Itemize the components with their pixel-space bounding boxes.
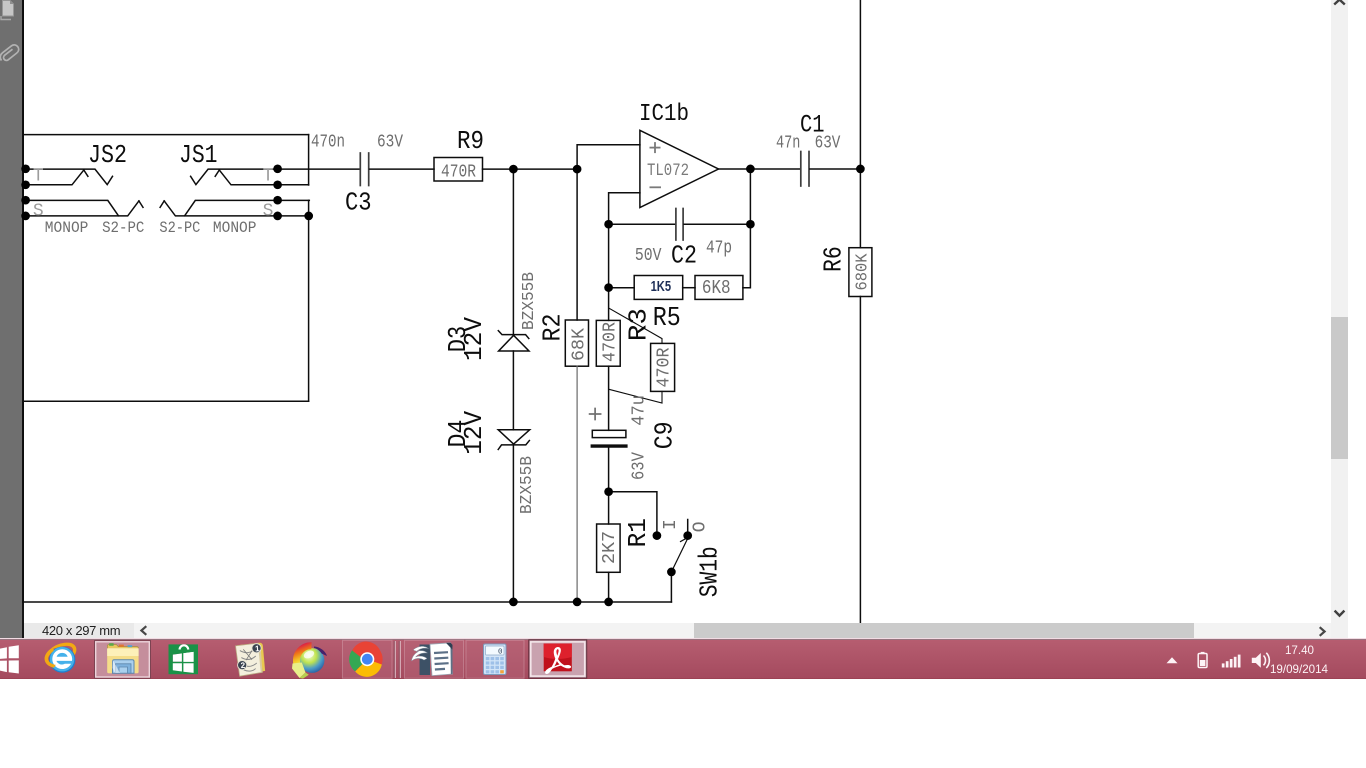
wire: R1 to rail (608, 572, 610, 602)
resistor R3 body (596, 320, 620, 366)
jack JS2 tip contact (24, 169, 113, 185)
wire: node to node B (513, 168, 577, 170)
wire: C9 to R1 node (608, 448, 610, 492)
tray expand triangle (1167, 657, 1178, 663)
switch pole dot (667, 568, 676, 577)
junction dots ground rail (509, 598, 613, 607)
svg-text:470R: 470R (441, 162, 476, 182)
label R5 (653, 304, 681, 334)
label JS1 (179, 140, 218, 170)
start button windows flag (0, 645, 19, 673)
wire: connector box bottom edge (23, 400, 308, 402)
wire: R2 vertical upper (576, 169, 578, 320)
colorful swirl app icon (292, 646, 327, 679)
label R6 rotated (818, 246, 848, 272)
label D4 rotated (443, 420, 473, 448)
value 50V of C2 (635, 246, 662, 266)
svg-text:T: T (263, 166, 274, 186)
label C3 (345, 188, 372, 218)
taskbar clock (1210, 644, 1314, 656)
label IC1b (639, 101, 689, 128)
label SW1b rotated (694, 546, 724, 597)
svg-text:JS2: JS2 (88, 140, 127, 170)
jack JS1 tip blade (215, 170, 279, 185)
wire: D3 anode from R9 node (512, 169, 514, 335)
value TL072 (647, 161, 689, 181)
wire: left frame edge (22, 0, 24, 602)
wire: R5 diagonal lower (609, 389, 662, 403)
value 470R of R5 rotated (654, 347, 674, 387)
value 470R of R9 (441, 162, 476, 182)
wire: R6 net vertical (859, 0, 861, 622)
wire: bottom ground rail (23, 601, 671, 603)
junction node at R9/D3 (509, 165, 518, 174)
svg-text:63V: 63V (377, 133, 403, 153)
wire: JS1 pin4 to box edge (278, 215, 309, 217)
junction node C2/feedback (746, 220, 755, 229)
svg-text:47u: 47u (630, 395, 650, 426)
toolbar grip separators (394, 641, 400, 678)
op-amp IC1b triangle (640, 130, 719, 207)
svg-text:2K7: 2K7 (600, 531, 620, 564)
wire: R2 vertical lower (576, 366, 578, 602)
wire: output to C1 (750, 168, 800, 170)
wire: JS1 pin2 to box edge (278, 184, 309, 186)
value BZX55B of D3 rotated (520, 272, 539, 330)
svg-text:I: I (661, 519, 681, 530)
wire: JS1 sleeve to box edge (278, 199, 310, 201)
horizontal scrollbar thumb (694, 623, 1194, 638)
tray signal bars icon (1222, 655, 1241, 668)
vertical scrollbar (1331, 0, 1348, 638)
svg-text:BZX55B: BZX55B (518, 456, 537, 514)
svg-text:68K: 68K (569, 328, 589, 361)
value 1K5 (651, 278, 672, 295)
op-amp plus sign (650, 142, 661, 153)
junction dots JS1 pins (273, 164, 313, 220)
resistor 6K8 body (695, 276, 743, 300)
svg-text:470R: 470R (654, 347, 674, 387)
svg-text:S: S (33, 202, 44, 222)
svg-text:R3: R3 (623, 308, 653, 341)
svg-text:680K: 680K (853, 253, 872, 290)
svg-text:0: 0 (498, 649, 503, 657)
value 6K8 (702, 277, 731, 299)
svg-text:T: T (33, 166, 44, 186)
jack JS1 tip contact (191, 169, 279, 185)
label R1 rotated (623, 518, 653, 547)
value 12V of D3 rotated (459, 317, 489, 361)
junction node at +input/R2 (573, 165, 582, 174)
junction node C9/R1/switch (604, 487, 613, 496)
value 2K7 rotated (600, 531, 620, 564)
svg-text:R1: R1 (623, 518, 653, 547)
svg-text:MONOP: MONOP (213, 219, 257, 237)
label R3 rotated (623, 308, 653, 341)
wire: connector box top edge (23, 134, 308, 136)
wire: JS1 tip to C3 (278, 168, 360, 170)
wire: connector box right edge lower (308, 200, 310, 401)
svg-text:O: O (690, 521, 710, 532)
switch label I rotated (661, 519, 681, 530)
svg-text:R6: R6 (818, 246, 848, 272)
pin label T left (33, 166, 44, 186)
jack JS2 sleeve contact (24, 200, 118, 215)
svg-text:C2: C2 (671, 240, 697, 270)
calculator button frame (466, 640, 524, 678)
adobe reader active button (528, 639, 587, 678)
svg-text:470n: 470n (311, 133, 345, 153)
wire: node to switch I contact (609, 492, 657, 536)
wire: switch pole to rail (670, 572, 672, 602)
svg-text:C3: C3 (345, 188, 372, 218)
switch SW1b O contact stub (687, 520, 689, 536)
openoffice button frame (405, 640, 464, 678)
windows store icon (169, 644, 199, 674)
label C9 rotated (649, 421, 679, 449)
tray battery icon (1198, 652, 1207, 668)
wire: C1 to R6 node (810, 168, 861, 170)
svg-text:47n: 47n (776, 133, 800, 153)
wire: D4 to rail (512, 445, 514, 602)
label JS2 (88, 140, 127, 170)
wire: node to 1K5 (609, 224, 635, 288)
junction node 1K5/R3 (604, 283, 613, 292)
label C1 (800, 111, 825, 140)
label S2-PC right (159, 219, 200, 237)
capacitor C1 (801, 152, 809, 187)
svg-text:MONOP: MONOP (45, 219, 89, 237)
value 47u rotated (630, 395, 650, 426)
svg-text:50V: 50V (635, 246, 662, 266)
value 63V of C1 (815, 133, 841, 153)
label R9 (457, 126, 484, 156)
label S2-PC left (102, 219, 144, 237)
chrome button frame (343, 640, 393, 678)
svg-text:63V: 63V (815, 133, 841, 153)
junction node C1/R6 (856, 165, 865, 174)
svg-text:R5: R5 (653, 304, 681, 334)
value 470n of C3 (311, 133, 345, 153)
svg-text:470R: 470R (601, 322, 621, 362)
taskbar icons layer (0, 636, 1366, 682)
plus sign C9 (590, 409, 601, 420)
jack JS1 sleeve contact (185, 200, 279, 215)
wire: C3 to R9 (370, 168, 434, 170)
capacitor C2 (676, 209, 683, 241)
capacitor C9 minus plate (592, 444, 626, 447)
jack JS1 sleeve blade (160, 201, 279, 216)
svg-text:S: S (263, 202, 274, 222)
zener diode D4 (498, 430, 530, 450)
resistor R9 body (434, 158, 483, 182)
pin label S right (263, 202, 274, 222)
switch contact O dot (683, 531, 692, 540)
wire: op-amp output (719, 168, 751, 170)
svg-text:R2: R2 (537, 314, 567, 342)
calculator icon (484, 644, 507, 675)
panel right border line (22, 0, 24, 639)
label C2 (671, 240, 697, 270)
bottom status / scrollbar strip (22, 623, 1331, 638)
value 12V of D4 rotated (459, 410, 489, 454)
left navigation panel (Adobe Reader) (0, 0, 23, 639)
label MONOP left (45, 219, 89, 237)
wire: mid vertical to R3 (608, 288, 610, 321)
svg-text:1K5: 1K5 (651, 278, 672, 295)
wire: R9 to node (483, 168, 514, 170)
value 63V of C3 (377, 133, 403, 153)
svg-text:6K8: 6K8 (702, 277, 731, 299)
capacitor C3 (360, 153, 368, 186)
svg-text:IC1b: IC1b (639, 101, 689, 128)
jack JS2 tip blade (24, 170, 88, 185)
internet explorer icon (45, 643, 77, 673)
notes utility icon (235, 642, 265, 676)
tray speaker icon (1252, 653, 1270, 668)
value 470R of R3 rotated (601, 322, 621, 362)
svg-text:R9: R9 (457, 126, 484, 156)
wire: 1K5 to 6K8 (683, 287, 695, 289)
TASKBAR (0, 638, 1366, 640)
wire: R3 to C9 (608, 366, 610, 430)
adobe reader icon (544, 644, 572, 675)
wire: -input node to C2 (609, 223, 675, 225)
wire: R5 diagonal upper (609, 308, 662, 343)
svg-text:JS1: JS1 (179, 140, 218, 170)
label D3 rotated (443, 326, 473, 352)
wire: op-amp -input bend (609, 193, 640, 224)
svg-text:SW1b: SW1b (694, 546, 724, 597)
svg-text:63V: 63V (630, 452, 650, 480)
op-amp minus sign (650, 186, 662, 188)
value 68K rotated (569, 328, 589, 361)
pin label T right (263, 166, 274, 186)
wire: C2 to feedback (684, 223, 750, 225)
svg-text:TL072: TL072 (647, 161, 689, 181)
switch SW1b blade (671, 536, 688, 572)
chrome icon (349, 642, 382, 677)
capacitor C9 plus plate (592, 430, 626, 437)
zener diode D3 (498, 331, 529, 351)
wire: D3 to D4 (512, 351, 514, 430)
resistor R2 68K body (565, 320, 588, 366)
value 680K rotated (853, 253, 872, 290)
resistor R1 body (597, 524, 621, 572)
switch label O rotated (690, 521, 710, 532)
svg-text:12V: 12V (459, 317, 489, 361)
label R2 rotated (537, 314, 567, 342)
wire: feedback vertical (743, 169, 751, 288)
junction node op-amp output (746, 165, 755, 174)
junction node -input/C2 (604, 220, 613, 229)
svg-text:BZX55B: BZX55B (520, 272, 539, 330)
resistor R6 body (849, 248, 872, 297)
resistor R5 body (651, 343, 675, 391)
value BZX55B of D4 rotated (518, 456, 537, 514)
switch contact I dot (653, 531, 662, 540)
file explorer folder icon (107, 643, 138, 673)
wire: node to R1 (608, 492, 610, 524)
svg-text:S2-PC: S2-PC (159, 219, 200, 237)
value 47n of C1 (776, 133, 800, 153)
jack JS2 sleeve blade (24, 201, 143, 216)
value 47p of C2 (706, 239, 732, 259)
svg-text:47p: 47p (706, 239, 732, 259)
svg-text:12V: 12V (459, 410, 489, 454)
resistor 1K5 body (634, 276, 683, 300)
file explorer button frame (open app) (95, 641, 151, 679)
openoffice writer icon (412, 643, 453, 676)
svg-text:S2-PC: S2-PC (102, 219, 144, 237)
pin label S left (33, 202, 44, 222)
value 63V of C9 rotated (630, 452, 650, 480)
svg-text:C9: C9 (649, 421, 679, 449)
label MONOP right (213, 219, 257, 237)
junction dots JS2 pins (21, 164, 30, 220)
wire: connector box right edge upper (308, 135, 310, 185)
wire: op-amp +input bend (577, 145, 640, 169)
